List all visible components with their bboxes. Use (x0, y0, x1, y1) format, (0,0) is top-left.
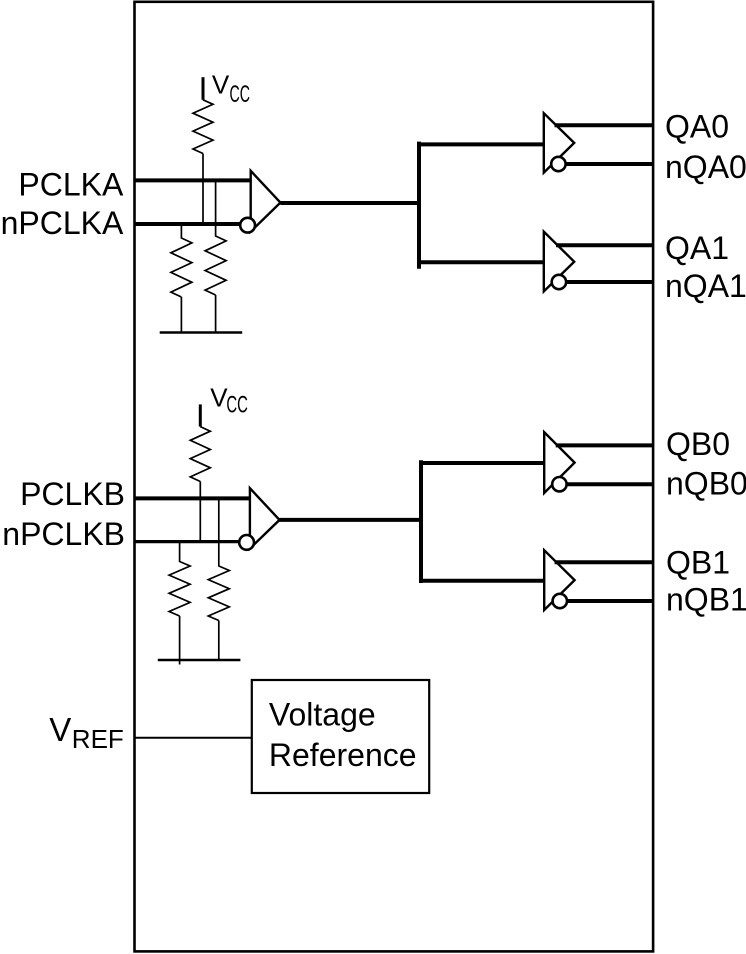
svg-text:QB1: QB1 (666, 544, 730, 580)
buffer U5 (QB0/nQB0 output driver triangle) (544, 432, 574, 493)
svg-text:nPCLKB: nPCLKB (2, 516, 125, 552)
buffer U4 (PCLKB/nPCLKB input receiver triangle) (250, 488, 280, 548)
svg-text:nQA1: nQA1 (665, 268, 746, 304)
wire nQA1 output (567, 280, 654, 284)
wire PCLKB input (134, 496, 250, 500)
svg-text:PCLKB: PCLKB (20, 476, 125, 512)
wire nQA0 output (566, 162, 653, 166)
resistor R1 (VCC pullup to nPCLKA, section A) (193, 100, 213, 154)
buffer U2 (QA0/nQA0 output driver triangle) (544, 113, 574, 172)
inverting-input bubble of U4 (239, 535, 254, 550)
wire branch to buffer U5 (421, 461, 544, 465)
wire nQB1 output (568, 599, 654, 603)
voltage reference block U7 (252, 680, 429, 793)
wire QB0 output (556, 443, 654, 447)
wire QA1 output (556, 243, 654, 247)
resistor R3 (pulldown from PCLKA, section A) (205, 180, 226, 295)
wire R2 lead to ground (180, 297, 182, 333)
svg-text:QB0: QB0 (666, 426, 730, 462)
svg-text:nQB0: nQB0 (666, 465, 746, 501)
wire R6 lead to ground (218, 621, 220, 661)
power VCC stub (section B) (199, 404, 202, 426)
power VCC stub (section A) (202, 77, 205, 100)
wire branch vertical (section A) (417, 142, 421, 269)
wire R1 lead to nPCLKA (202, 154, 204, 225)
svg-text:PCLKA: PCLKA (18, 166, 124, 202)
ground (section A) (160, 331, 243, 333)
svg-text:V: V (212, 70, 230, 100)
wire R5 lead to ground (179, 616, 181, 665)
wire R4 lead to nPCLKB (199, 482, 201, 542)
svg-text:REF: REF (72, 724, 124, 754)
buffer U3 (QA1/nQA1 output driver triangle) (544, 232, 574, 292)
wire PCLKA input (134, 178, 251, 182)
ground (section B) (158, 659, 241, 661)
resistor R4 (VCC pullup to nPCLKB, section B) (190, 427, 210, 482)
wire nPCLKB input (134, 540, 239, 543)
wire QA0 output (555, 123, 654, 127)
wire branch to buffer U2 (419, 142, 544, 146)
svg-text:CC: CC (230, 81, 251, 108)
wire U4 output to branch (280, 518, 422, 522)
wire QB1 output (555, 560, 654, 564)
wire VREF input (134, 737, 252, 739)
svg-text:nPCLKA: nPCLKA (1, 205, 124, 241)
svg-text:Reference: Reference (269, 737, 417, 773)
inverted-output bubble of U6 (553, 594, 567, 608)
inverted-output bubble of U2 (551, 157, 565, 171)
svg-text:nQB1: nQB1 (666, 581, 746, 617)
inverted-output bubble of U3 (552, 275, 566, 289)
svg-text:V: V (49, 711, 71, 748)
wire branch vertical (section B) (419, 460, 423, 583)
buffer U6 (QB1/nQB1 output driver triangle) (544, 550, 574, 610)
wire nQB0 output (567, 482, 653, 486)
resistor R2 (pulldown from nPCLKA, section A) (171, 224, 192, 297)
buffer U1 (PCLKA/nPCLKA input receiver triangle) (251, 171, 281, 232)
wire branch to buffer U6 (421, 579, 544, 583)
wire branch to buffer U3 (419, 260, 544, 264)
chip outline (135, 2, 654, 952)
svg-text:CC: CC (226, 391, 248, 418)
resistor R6 (pulldown from PCLKB, section B) (208, 498, 229, 620)
wire nPCLKA input (134, 222, 240, 226)
svg-text:nQA0: nQA0 (665, 149, 746, 185)
inverted-output bubble of U5 (552, 477, 566, 491)
svg-text:QA0: QA0 (665, 109, 729, 145)
svg-text:Voltage: Voltage (269, 696, 376, 732)
wire U1 output to branch (280, 201, 419, 205)
inverting-input bubble of U1 (240, 218, 255, 233)
wire R3 lead to ground (215, 295, 217, 333)
svg-text:QA1: QA1 (665, 230, 729, 266)
resistor R5 (pulldown from nPCLKB, section B) (169, 542, 190, 616)
